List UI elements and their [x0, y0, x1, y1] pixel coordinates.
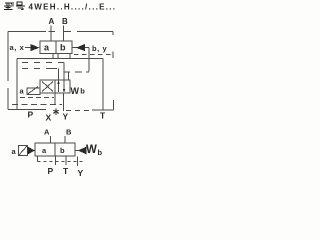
svg-text:Y: Y	[78, 168, 84, 178]
dashed line from Y to T	[66, 110, 92, 112]
svg-text:B: B	[66, 128, 72, 137]
svg-text:W: W	[71, 86, 80, 96]
pilot valve parallel arrow down	[63, 63, 65, 93]
valve box (bottom symbol)	[35, 143, 75, 156]
wire left down x=17	[16, 59, 18, 110]
port line B	[63, 26, 65, 42]
glyph 号	[16, 2, 25, 9]
pilot arrow right (into main box)	[72, 47, 77, 49]
dashed base line (bottom symbol)	[38, 161, 84, 163]
svg-text:A: A	[49, 17, 55, 26]
svg-text:W: W	[86, 144, 97, 156]
svg-text:P: P	[48, 166, 54, 176]
dashed drain line y=97.5	[20, 97, 54, 99]
pilot valve parallel arrow up	[58, 69, 60, 93]
svg-text:X: X	[46, 113, 52, 123]
svg-text:a: a	[42, 146, 47, 155]
enclosure right edge dash	[112, 52, 114, 59]
svg-text:Y: Y	[63, 112, 69, 122]
wire T down x=103	[102, 59, 104, 111]
wire Y down from pilot valve	[63, 93, 65, 111]
port line A (bottom symbol)	[50, 136, 52, 143]
enclosure right bottom stub	[113, 100, 115, 110]
pilot arrow left (into main box)	[25, 47, 32, 49]
wire X* up from pilot valve	[54, 93, 56, 105]
glyph 型	[4, 2, 13, 10]
svg-text:B: B	[62, 17, 68, 26]
svg-text:a, x: a, x	[10, 43, 25, 52]
dashed enclosure bottom y=104.5	[12, 104, 62, 106]
svg-text:b: b	[80, 87, 85, 96]
svg-text:b: b	[60, 43, 66, 53]
dashed pilot line y=71.5 to b,y wire	[64, 71, 90, 73]
dashed pilot line y=62.5	[22, 62, 64, 64]
enclosure top-right corner stub	[112, 32, 114, 36]
pilot valve body	[40, 80, 70, 93]
svg-text:4WEH..H..../...E...: 4WEH..H..../...E...	[29, 3, 117, 12]
bottom solid line with P	[8, 109, 46, 111]
port line A	[50, 26, 52, 42]
port stub P (bottom symbol)	[55, 156, 57, 165]
wire b,y down	[88, 48, 90, 72]
solenoid arrow (bottom symbol)	[28, 147, 36, 155]
svg-text:a: a	[20, 87, 25, 96]
corner stub (bottom symbol)	[37, 156, 39, 162]
right arrow (bottom symbol)	[75, 150, 79, 152]
solenoid box (bottom symbol)	[19, 146, 28, 156]
port stub Y (bottom symbol)	[77, 157, 79, 167]
svg-text:a: a	[44, 43, 50, 53]
dashed line right of box (y=54.5)	[74, 54, 113, 56]
dashed pilot line y=68.5	[22, 68, 57, 70]
pilot valve crossed arrows (X cell)	[42, 82, 53, 92]
main valve box with positions a|b	[40, 41, 72, 54]
svg-text:b, y: b, y	[92, 44, 108, 53]
drain wire horizontal y=58.5	[17, 58, 103, 60]
risers from main box bottom	[53, 54, 70, 59]
title text 型号4WEH..H..../...E...	[4, 2, 116, 12]
svg-text:T: T	[63, 166, 69, 176]
svg-text:T: T	[100, 111, 106, 121]
svg-text:b: b	[98, 148, 103, 157]
svg-text:P: P	[28, 110, 34, 120]
port stub T (bottom symbol)	[65, 156, 67, 165]
enclosure top edge (dashed over ports)	[8, 31, 113, 33]
asterisk marker of port X	[53, 109, 59, 116]
svg-text:A: A	[44, 128, 50, 137]
svg-text:a: a	[12, 147, 17, 156]
svg-text:b: b	[60, 146, 65, 155]
enclosure left edge	[7, 32, 9, 110]
stub above pilot valve x=68.5	[68, 72, 70, 81]
port line B (bottom symbol)	[64, 136, 66, 143]
